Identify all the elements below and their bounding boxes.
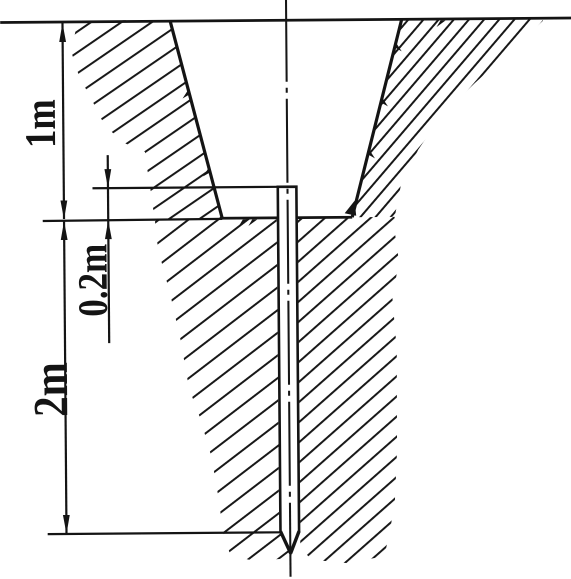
svg-text:1m: 1m	[16, 99, 65, 148]
svg-text:2m: 2m	[23, 362, 78, 417]
svg-text:0.2m: 0.2m	[71, 244, 117, 317]
